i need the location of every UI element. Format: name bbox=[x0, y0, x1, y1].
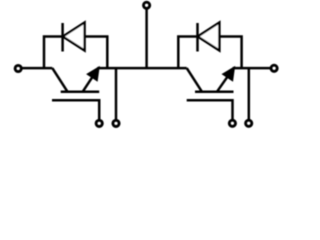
transistor Q2 (IGBT) bbox=[187, 68, 234, 92]
diode D2 bbox=[198, 22, 220, 51]
terminal E1x (aux emitter) bbox=[113, 120, 119, 126]
wire collector C1 horizontal bbox=[22, 67, 53, 70]
wire aux emitter E2x drop bbox=[248, 68, 251, 121]
diode D1 bbox=[63, 22, 85, 51]
terminal C1 (left collector) bbox=[15, 65, 21, 71]
terminal E2x (aux emitter) bbox=[246, 120, 252, 126]
wire top terminal vertical bbox=[145, 9, 148, 68]
wire emitter rail to E2 bbox=[233, 67, 271, 70]
wire gate G1 with drop bbox=[52, 100, 99, 121]
wire center rail (node AC) bbox=[97, 67, 187, 70]
terminal AC (top) bbox=[144, 2, 150, 8]
wire gate G2 with drop bbox=[187, 100, 233, 121]
terminal E2 (right emitter) bbox=[271, 65, 277, 71]
wire diode D1 right branch bbox=[85, 37, 108, 69]
wire aux emitter E1x drop bbox=[115, 68, 118, 121]
wire diode D2 right branch bbox=[219, 37, 241, 69]
transistor Q1 (IGBT) bbox=[52, 68, 99, 92]
wire diode D2 left branch bbox=[178, 37, 197, 69]
terminal G1 (gate) bbox=[96, 120, 102, 126]
terminal G2 (gate) bbox=[229, 120, 235, 126]
wire diode D1 left branch bbox=[44, 37, 63, 69]
